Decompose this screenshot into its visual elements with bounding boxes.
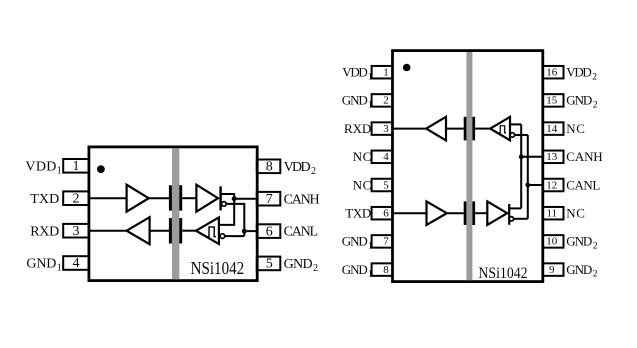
svg-text:TXD: TXD: [345, 206, 371, 221]
pin 12 box U2: [543, 179, 564, 192]
pin 16 box U2: [543, 66, 564, 79]
svg-text:CANL: CANL: [566, 177, 600, 192]
svg-text:9: 9: [549, 264, 555, 276]
svg-text:RXD: RXD: [344, 121, 371, 136]
pin 13 box U2: [543, 151, 564, 164]
wire capacitor C3 to receiver R2: [475, 128, 490, 130]
wire receiver R2 bubble to node CANL U2: [515, 134, 528, 136]
svg-text:VDD: VDD: [284, 160, 311, 175]
buffer A2 (RXD output buffer): [127, 217, 150, 244]
isolation barrier (gray bar) U1: [172, 148, 179, 279]
svg-text:4: 4: [73, 256, 80, 271]
wire capacitor C4 to driver D2: [475, 212, 487, 214]
svg-text:GND: GND: [566, 234, 592, 249]
wire pin 3 RXD to buffer A3: [393, 128, 427, 130]
svg-text:VDD: VDD: [566, 65, 592, 80]
svg-text:GND: GND: [566, 93, 592, 108]
buffer A1 (TXD input buffer): [127, 185, 149, 212]
wire receiver R2 top input to node CANH U2: [510, 123, 521, 125]
svg-text:8: 8: [383, 264, 389, 276]
svg-text:1: 1: [383, 67, 389, 79]
wire node CANH to receiver R1 top input: [219, 199, 234, 225]
svg-text:2: 2: [73, 191, 80, 206]
wire node CANH to pin 13: [521, 156, 543, 158]
svg-text:GND: GND: [566, 262, 592, 277]
svg-text:16: 16: [546, 67, 558, 79]
capacitor C3 plates (RXD isolation) U2: [464, 117, 467, 141]
svg-text:11: 11: [547, 208, 558, 220]
svg-text:4: 4: [383, 151, 389, 163]
pin 4 box U1: [63, 256, 89, 270]
pin 1 box U1: [63, 159, 89, 173]
svg-text:NC: NC: [566, 121, 585, 136]
svg-text:6: 6: [266, 224, 273, 239]
wire node CANL to pin 6: [244, 230, 256, 232]
svg-text:1: 1: [73, 159, 80, 174]
svg-text:NC: NC: [566, 206, 585, 221]
svg-text:7: 7: [266, 192, 273, 207]
svg-text:GND: GND: [342, 262, 368, 277]
svg-text:12: 12: [546, 179, 557, 191]
pin 6 box U2: [372, 207, 393, 220]
junction node CANL U2: [525, 183, 530, 188]
pin 1 marker dot U1: [97, 165, 105, 173]
svg-text:5: 5: [383, 179, 389, 191]
svg-text:2: 2: [593, 242, 598, 252]
pin 5 box U2: [372, 179, 393, 192]
svg-text:1: 1: [57, 165, 62, 176]
wire node CANL to pin 12: [528, 184, 543, 186]
pin 2 box U1: [63, 191, 89, 205]
pin 8 box U2: [372, 263, 393, 276]
wire TXD pin2 to buffer A1: [89, 197, 127, 199]
svg-text:GND: GND: [342, 234, 368, 249]
driver D2 output stage bar: [508, 204, 510, 225]
svg-text:NC: NC: [353, 177, 372, 192]
driver D1 (CAN bus driver): [196, 185, 218, 212]
svg-text:GND: GND: [284, 257, 313, 272]
wire node CANH to pin 7: [234, 198, 257, 200]
wire buffer A2 to pin 3: [89, 230, 127, 232]
receiver R1 (CAN bus receiver with hysteresis): [196, 217, 219, 244]
receiver R2 inverting bubble: [510, 133, 514, 137]
hysteresis symbol R1: [207, 227, 216, 237]
wire buffer A1 to isolation capacitor C1: [149, 197, 169, 199]
svg-text:TXD: TXD: [30, 192, 59, 207]
capacitor C1 plates (TXD isolation): [169, 185, 172, 210]
wire driver D2 bubble to CANL bus: [514, 218, 528, 220]
pin 3 box U2: [372, 122, 393, 135]
svg-text:2: 2: [383, 95, 389, 107]
pin 2 box U2: [372, 94, 393, 107]
svg-text:CANH: CANH: [284, 192, 320, 207]
svg-text:5: 5: [266, 257, 273, 272]
svg-text:2: 2: [313, 263, 318, 274]
wire buffer A4 to capacitor C4: [447, 212, 464, 214]
svg-text:13: 13: [546, 151, 558, 163]
driver D1 inverting bubble: [222, 202, 227, 207]
pin 6 box U1: [257, 224, 281, 238]
wire capacitor C2 to buffer A2: [150, 230, 169, 232]
wire driver D2 top output to CANH bus: [509, 207, 521, 209]
buffer A4 (TXD input buffer) U2: [427, 201, 447, 225]
svg-text:2: 2: [593, 101, 598, 111]
hysteresis symbol R2: [499, 126, 506, 133]
IC U1 NSi1042 (8-pin package) body: [89, 147, 257, 281]
junction node CANH U1: [232, 196, 237, 201]
pin 4 box U2: [372, 151, 393, 164]
svg-text:3: 3: [73, 224, 80, 239]
svg-text:VDD: VDD: [342, 65, 368, 80]
driver D2 (CAN bus driver) U2: [487, 201, 507, 225]
buffer A3 (RXD output buffer) U2: [426, 117, 446, 141]
svg-text:CANH: CANH: [566, 149, 602, 164]
svg-text:NSi1042: NSi1042: [478, 265, 527, 282]
pin 7 box U2: [372, 235, 393, 248]
wire capacitor C1 to driver D1: [182, 197, 196, 199]
wire buffer A3 to capacitor C3: [446, 128, 464, 130]
svg-text:1: 1: [368, 270, 373, 280]
svg-text:10: 10: [546, 236, 558, 248]
receiver R2 (CAN bus receiver with hysteresis) U2: [490, 117, 510, 140]
pin 9 box U2: [543, 263, 564, 276]
svg-text:2: 2: [592, 72, 597, 82]
wire CANL vertical bus U2: [527, 135, 529, 219]
capacitor C2 plates (RXD isolation): [169, 218, 172, 243]
wire CANH vertical bus U2: [520, 124, 522, 208]
pin 7 box U1: [257, 192, 281, 206]
IC U2 NSi1042 (16-pin package) body: [393, 51, 543, 282]
svg-text:1: 1: [368, 72, 373, 82]
pin 15 box U2: [543, 94, 564, 107]
svg-text:2: 2: [593, 270, 598, 280]
svg-text:RXD: RXD: [30, 224, 59, 239]
pin 5 box U1: [257, 257, 281, 271]
svg-text:8: 8: [266, 160, 273, 175]
wire receiver R1 to isolation capacitor C2: [182, 230, 196, 232]
pin 1 box U2: [372, 66, 393, 79]
svg-text:3: 3: [383, 123, 389, 135]
pin 10 box U2: [543, 235, 564, 248]
svg-text:GND: GND: [26, 257, 56, 272]
receiver R1 inverting bubble: [220, 234, 225, 239]
svg-text:1: 1: [368, 242, 373, 252]
svg-text:15: 15: [546, 95, 558, 107]
wire pin 6 TXD to buffer A4: [393, 212, 427, 214]
svg-text:GND: GND: [342, 93, 368, 108]
svg-text:2: 2: [311, 166, 316, 177]
svg-text:14: 14: [546, 123, 558, 135]
capacitor C4 plates (TXD isolation) U2: [464, 201, 467, 225]
svg-text:7: 7: [383, 236, 389, 248]
svg-text:CANL: CANL: [284, 225, 319, 240]
pin 8 box U1: [257, 160, 281, 174]
driver D2 inverting bubble: [509, 217, 513, 221]
junction node CANH U2: [519, 154, 524, 159]
wire node CANL branch to receiver R1 bubble: [225, 235, 244, 237]
pin 1 marker dot U2: [403, 64, 411, 72]
junction node CANL U1: [242, 229, 247, 234]
isolation barrier (gray bar) U2: [466, 52, 472, 280]
wire driver D1 bubble to CANL branch: [226, 204, 244, 236]
svg-text:NSi1042: NSi1042: [191, 258, 245, 278]
pin 14 box U2: [543, 122, 564, 135]
svg-text:VDD: VDD: [25, 159, 56, 174]
svg-text:1: 1: [368, 101, 373, 111]
pin 11 box U2: [543, 207, 564, 220]
svg-text:NC: NC: [353, 149, 372, 164]
pin 3 box U1: [63, 224, 89, 238]
svg-text:6: 6: [383, 208, 389, 220]
wire driver D1 top output to node CANH: [221, 194, 234, 199]
svg-text:1: 1: [57, 263, 62, 274]
driver D1 output stage bar: [219, 186, 221, 210]
